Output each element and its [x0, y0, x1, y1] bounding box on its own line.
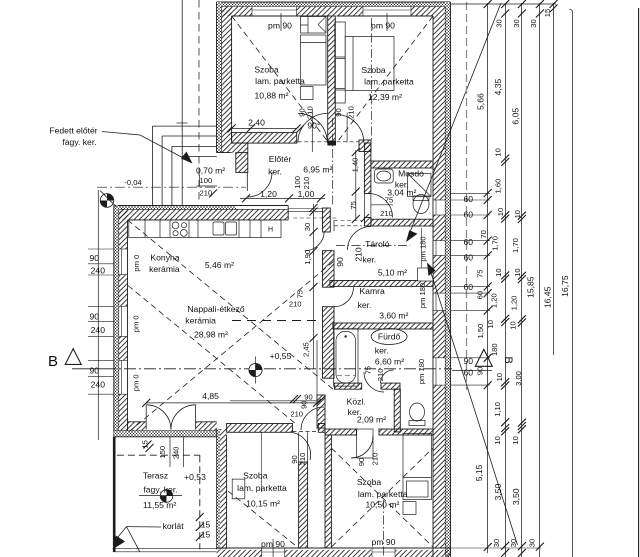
- wall: Kozl / WC divider: [394, 389, 400, 432]
- svg-text:1,20: 1,20: [509, 296, 518, 311]
- svg-text:1,90: 1,90: [303, 250, 312, 265]
- svg-text:30: 30: [512, 19, 521, 27]
- svg-text:210: 210: [298, 453, 307, 466]
- svg-text:3,50: 3,50: [493, 484, 503, 501]
- roof overhang dashed over terrace: [117, 455, 200, 549]
- svg-text:12,39 m²: 12,39 m²: [368, 92, 402, 102]
- svg-text:pm 180: pm 180: [419, 236, 428, 261]
- Furdo bathtub: [334, 329, 358, 386]
- svg-text:70: 70: [479, 230, 488, 238]
- svg-text:pm 180: pm 180: [418, 283, 427, 308]
- door arc: bedroom2 door: [336, 113, 364, 143]
- porch steps nested corners: [153, 126, 217, 205]
- svg-text:10: 10: [494, 268, 503, 276]
- wall: pier between opening and central wall: [323, 208, 331, 232]
- leader: long leader B to Kamra corner: [427, 263, 518, 546]
- svg-text:60: 60: [463, 253, 473, 263]
- svg-text:lam. parketta: lam. parketta: [255, 76, 305, 86]
- svg-text:10: 10: [513, 210, 522, 218]
- svg-text:ker.: ker.: [358, 300, 372, 310]
- svg-text:Nappali-étkező: Nappali-étkező: [187, 304, 245, 314]
- wall: south wall of Nappali at terrace: [114, 422, 217, 437]
- svg-text:6,95 m²: 6,95 m²: [303, 165, 332, 175]
- svg-text:210: 210: [302, 177, 311, 190]
- room diagonal: bedroom1 dashed: [232, 16, 329, 143]
- svg-text:1,10: 1,10: [493, 402, 502, 417]
- svg-text:240: 240: [91, 380, 106, 390]
- svg-text:pm 0: pm 0: [131, 315, 140, 332]
- svg-text:90: 90: [89, 253, 99, 263]
- leader: Fedett eloter arrow: [102, 132, 193, 164]
- svg-text:pm 180: pm 180: [417, 359, 426, 384]
- dimension line: right chain line L5: [539, 3, 541, 557]
- door arc: terrace double door: [146, 405, 195, 430]
- wall pocket at Kamra NE corner: [418, 268, 433, 281]
- dimension line: right chain line L3: [505, 3, 507, 557]
- wall: bedroom3 / bedroom4 divider: [299, 432, 308, 548]
- ticks: L3 chain: [501, 155, 509, 557]
- svg-text:10: 10: [513, 268, 522, 276]
- svg-text:60: 60: [463, 282, 473, 292]
- svg-text:30: 30: [527, 539, 536, 547]
- wire: roof line solid vertical x182: [181, 0, 183, 206]
- bedroom1 bed: [301, 35, 327, 85]
- window: top wall bedroom1 window pm90: [252, 7, 297, 17]
- wall: Tarolo / Kamra divider: [330, 281, 433, 287]
- svg-text:30: 30: [529, 19, 538, 27]
- wire: top connector of right chains: [451, 3, 557, 5]
- svg-text:pm 0: pm 0: [132, 255, 141, 272]
- svg-text:1,70: 1,70: [511, 238, 520, 253]
- wire: opening Eloter-Nappali head lines: [288, 209, 338, 219]
- door arc: Kamra door: [334, 287, 354, 307]
- wall: bedroom4 west wall: [325, 435, 331, 548]
- window: left wall window3: [119, 360, 128, 394]
- svg-text:Szoba: Szoba: [357, 477, 382, 487]
- svg-text:B: B: [502, 357, 514, 364]
- survey marker in Nappali: [249, 357, 262, 384]
- wall: central wall between bedrooms: [327, 16, 336, 146]
- door arc: WC door: [381, 370, 394, 383]
- svg-text:6,05: 6,05: [511, 108, 521, 125]
- svg-text:1,60: 1,60: [494, 179, 503, 194]
- svg-text:H: H: [268, 227, 273, 234]
- svg-text:15: 15: [141, 440, 150, 448]
- window: left wall window2: [119, 306, 128, 336]
- wall: left exterior wall (west): [114, 206, 128, 437]
- svg-text:60: 60: [463, 210, 473, 220]
- window: right wall Furdo window: [433, 358, 445, 385]
- svg-text:10: 10: [509, 321, 518, 329]
- svg-text:10: 10: [495, 373, 504, 381]
- wire: passage dashes kitchen-Tarolo: [334, 221, 362, 226]
- svg-text:210: 210: [353, 247, 363, 262]
- svg-text:90: 90: [300, 400, 309, 408]
- svg-text:30: 30: [495, 19, 504, 27]
- dimension line: terrace 15/15 right chain: [196, 513, 204, 541]
- svg-text:B: B: [48, 353, 58, 370]
- svg-text:90: 90: [89, 311, 99, 321]
- svg-text:kerámia: kerámia: [185, 316, 216, 326]
- leader: long leader A to Tarolo: [406, 3, 501, 242]
- axis dash-dot: bedroom4 window axis: [383, 500, 385, 557]
- svg-text:30: 30: [492, 539, 501, 547]
- wall: Mosdo west wall: [364, 143, 371, 226]
- kitchen counter: [129, 220, 281, 238]
- svg-text:10,50 m²: 10,50 m²: [365, 500, 399, 510]
- svg-text:150: 150: [158, 446, 167, 459]
- kitchen sink: [213, 222, 237, 235]
- svg-text:75: 75: [385, 196, 393, 205]
- survey marker in Terasz: [160, 490, 173, 503]
- door arc: Tarolo door: [305, 231, 324, 250]
- svg-text:10: 10: [494, 148, 503, 156]
- wall: Kamra / Furdo divider: [333, 323, 433, 329]
- svg-text:90°: 90°: [307, 120, 320, 130]
- svg-text:0,70 m²: 0,70 m²: [196, 165, 225, 175]
- svg-text:75: 75: [475, 269, 484, 277]
- axis dash-dot: bedroom3 window axis: [272, 539, 274, 557]
- kitchen stove circles: [172, 222, 187, 236]
- wall: right exterior wall: [433, 2, 451, 557]
- svg-text:100: 100: [200, 176, 213, 185]
- svg-text:pm 0: pm 0: [131, 374, 140, 391]
- svg-text:Kamra: Kamra: [359, 286, 385, 296]
- wall: central wall lower (Nappali/Tarolo-Kamra-Furdo): [323, 220, 335, 378]
- door arc: Kozl door from Nappali: [301, 407, 324, 430]
- svg-text:210: 210: [380, 209, 393, 218]
- Mosdo shower: [408, 174, 432, 197]
- svg-text:Konyha: Konyha: [150, 253, 179, 263]
- svg-text:pm 90: pm 90: [268, 20, 292, 30]
- svg-text:ker.: ker.: [362, 254, 376, 264]
- WC room toilet: [409, 403, 425, 426]
- wall: terrace / bedroom3 west wall: [217, 429, 227, 549]
- svg-text:15: 15: [201, 520, 211, 530]
- svg-text:lam. parketta: lam. parketta: [364, 77, 414, 87]
- svg-text:6,60 m²: 6,60 m²: [375, 356, 404, 366]
- section line B-B dash-dot: [72, 369, 492, 371]
- wire: terrace bottom edge: [113, 548, 217, 552]
- svg-text:pm 90: pm 90: [261, 539, 285, 549]
- svg-text:Fürdő: Fürdő: [378, 332, 401, 342]
- wall: kitchen north wall / porch wall: [114, 206, 288, 220]
- bedroom4 bed: [403, 434, 432, 515]
- window: right wall Kamra window: [433, 293, 445, 311]
- dimension line: 1,20 / 1,00 eloter: [240, 194, 325, 202]
- wire: kozl stub extension: [316, 340, 318, 395]
- svg-text:16,45: 16,45: [542, 286, 552, 308]
- dimension line: right chain line L6: [553, 3, 555, 355]
- window: bottom wall bedroom3 window: [262, 548, 285, 557]
- wall: Kozl west stub: [317, 395, 325, 428]
- ticks: L2 chain: [484, 189, 492, 551]
- svg-text:-0,04: -0,04: [124, 178, 141, 187]
- room diagonal: bedroom2 dashed: [337, 16, 434, 143]
- wall: terrace west railing edge: [113, 437, 116, 552]
- svg-text:210: 210: [290, 409, 303, 418]
- window: right wall Mosdo window: [433, 200, 445, 215]
- svg-text:60: 60: [463, 368, 473, 378]
- svg-text:75: 75: [364, 366, 373, 374]
- svg-text:16,75: 16,75: [560, 275, 570, 297]
- svg-text:75: 75: [349, 201, 358, 209]
- door arc: bedroom3 door: [262, 433, 311, 493]
- wire: roof overhang dashed vertical x199: [198, 0, 200, 204]
- room diagonal: nappali main dashed: [128, 220, 335, 390]
- svg-text:5,10 m²: 5,10 m²: [378, 267, 407, 277]
- svg-text:5,66: 5,66: [475, 93, 485, 110]
- wall: bottom exterior wall: [217, 548, 451, 557]
- dimension line: right chain line L7: [570, 9, 573, 557]
- svg-text:100: 100: [293, 176, 302, 189]
- wall: entry door side pier: [236, 153, 248, 173]
- svg-text:10: 10: [486, 320, 495, 328]
- svg-text:210: 210: [306, 106, 315, 119]
- svg-text:60: 60: [463, 237, 473, 247]
- svg-text:180: 180: [490, 343, 499, 356]
- svg-text:fagy. ker.: fagy. ker.: [62, 137, 96, 147]
- svg-text:+0,55: +0,55: [270, 351, 292, 361]
- svg-text:+0,53: +0,53: [184, 472, 206, 482]
- section marker B right triangle: [475, 349, 492, 366]
- wire: porch door axis dash-dot: [97, 186, 246, 188]
- svg-text:210: 210: [376, 369, 385, 382]
- svg-text:ker.: ker.: [268, 167, 282, 177]
- svg-text:3,50: 3,50: [511, 488, 521, 505]
- svg-text:90: 90: [463, 356, 473, 366]
- svg-text:15: 15: [201, 530, 211, 540]
- svg-text:10: 10: [496, 208, 505, 216]
- ticks: top of right chains: [484, 0, 558, 18]
- extension lines: right wall window edges: [451, 193, 491, 385]
- svg-text:90: 90: [334, 108, 343, 116]
- svg-text:1,40: 1,40: [351, 158, 360, 173]
- svg-text:30: 30: [509, 539, 518, 547]
- svg-text:90: 90: [304, 393, 312, 402]
- svg-text:15,85: 15,85: [526, 276, 536, 298]
- svg-text:3,00: 3,00: [514, 371, 523, 386]
- door arc: front entry door: [247, 172, 272, 197]
- section marker B left triangle: [65, 349, 81, 365]
- bedroom2 bed: [345, 36, 394, 90]
- bedroom1 wardrobe: [301, 17, 327, 34]
- svg-text:11,55 m²: 11,55 m²: [143, 500, 176, 510]
- wire: Tarolo axis dash-dot: [336, 245, 410, 247]
- svg-text:15: 15: [543, 9, 552, 17]
- svg-text:240: 240: [91, 266, 106, 276]
- dimension line: 4,85 nappali: [142, 399, 321, 407]
- wire: bedroom2 door head dashed line: [298, 141, 327, 143]
- svg-text:4,85: 4,85: [202, 391, 219, 401]
- label: Furdo with ellipse: [371, 329, 407, 345]
- dimension line: eloter east chain 1,40 / 75: [352, 148, 360, 223]
- svg-text:1,70: 1,70: [491, 236, 500, 251]
- bedroom2 nightstand column: [335, 22, 345, 103]
- svg-text:60: 60: [463, 194, 473, 204]
- svg-text:Közl.: Közl.: [347, 396, 366, 406]
- border line right edge: [638, 8, 640, 557]
- wall: bedroom2 south pier: [359, 140, 371, 152]
- dimension line: right gray dashed overhang line: [466, 2, 468, 390]
- wall: north walls of bedroom3 / Kozl south: [227, 424, 433, 436]
- svg-text:240: 240: [91, 325, 106, 335]
- svg-text:Előtér: Előtér: [269, 154, 292, 164]
- wire: pm180 dim line tarolo: [421, 228, 423, 268]
- door arc: bedroom4 door: [351, 429, 373, 458]
- wall: Mosdo / Tarolo divider: [371, 219, 433, 226]
- svg-text:210: 210: [347, 106, 356, 119]
- svg-text:60: 60: [475, 291, 484, 299]
- svg-text:pm 90: pm 90: [372, 537, 396, 547]
- wall: bedroom1 south wall: [232, 133, 297, 144]
- room diagonal: bedroom4 rising dashed: [331, 448, 433, 547]
- svg-text:3,60 m²: 3,60 m²: [379, 311, 408, 321]
- svg-text:28,98 m²: 28,98 m²: [194, 329, 228, 339]
- wall: piece right of Furdo door: [381, 383, 400, 389]
- svg-text:4,35: 4,35: [493, 79, 503, 96]
- svg-text:fagy. ker.: fagy. ker.: [143, 485, 177, 495]
- svg-text:lam. parketta: lam. parketta: [358, 489, 408, 499]
- room diagonal: bedroom3 dashed: [228, 491, 299, 548]
- svg-text:30: 30: [303, 223, 312, 231]
- svg-text:korlát: korlát: [163, 521, 185, 531]
- svg-text:240: 240: [172, 446, 181, 459]
- svg-text:10: 10: [511, 436, 520, 444]
- svg-text:10: 10: [493, 436, 502, 444]
- svg-text:pm 90: pm 90: [371, 20, 395, 30]
- extension lines: left wall windows: [88, 249, 114, 394]
- dimension line: porch 100/210 divider: [197, 175, 218, 198]
- svg-text:Terasz: Terasz: [143, 471, 168, 481]
- svg-text:1,50: 1,50: [476, 324, 485, 339]
- wall: bedroom2 / Mosdo divider: [371, 161, 433, 168]
- svg-text:Szoba: Szoba: [254, 64, 279, 74]
- room diagonal: nappali rising dashed: [129, 261, 334, 432]
- door arc: Furdo door: [364, 372, 384, 392]
- bedroom3 wardrobe: [232, 479, 245, 499]
- svg-text:Mosdó: Mosdó: [398, 168, 424, 178]
- svg-text:5,15: 5,15: [474, 464, 484, 481]
- window: top wall bedroom2 window pm90: [363, 7, 411, 17]
- svg-text:10,15 m²: 10,15 m²: [246, 499, 280, 509]
- svg-text:210: 210: [289, 300, 302, 309]
- dimension line: right chain line L4: [521, 3, 523, 557]
- axis dash-dot: bedroom2 window axis: [371, 18, 373, 141]
- dimension line: right chain line L2: [487, 3, 489, 553]
- wall: top exterior wall of bedrooms: [217, 2, 451, 16]
- axis dash-dot: eloter wall axis: [332, 118, 334, 205]
- leader: korlat arrow: [113, 527, 162, 552]
- svg-text:90: 90: [357, 458, 366, 466]
- wire: bottom connector of right chains: [451, 547, 542, 549]
- ticks: L4 chain: [518, 212, 526, 557]
- svg-text:90: 90: [335, 257, 345, 267]
- window: left wall window1: [119, 249, 128, 275]
- Mosdo washbasin: [375, 169, 394, 183]
- wall: Furdo / Kozl divider: [334, 383, 361, 389]
- window: bottom wall bedroom4 window: [372, 548, 395, 557]
- wire: 90 dim line kozl: [230, 400, 317, 402]
- bedroom1 nightstand: [301, 87, 314, 100]
- svg-text:1,20: 1,20: [489, 293, 498, 308]
- svg-text:5,46 m²: 5,46 m²: [205, 260, 234, 270]
- dimension line: central chain at eloter pier: [310, 204, 318, 369]
- wall: entry jog wall piece: [217, 143, 248, 153]
- svg-text:90: 90: [89, 365, 99, 375]
- svg-text:210: 210: [371, 453, 380, 466]
- dimension line: left vertical chain: [97, 190, 99, 440]
- door arc: Mosdo door: [369, 194, 394, 218]
- dimension line: terrace door 150/240 verticals: [144, 437, 184, 467]
- svg-text:210: 210: [200, 188, 213, 197]
- svg-text:75: 75: [295, 290, 304, 298]
- survey marker at NW corner: [100, 191, 116, 208]
- svg-text:1,00: 1,00: [298, 189, 315, 199]
- svg-text:Fedett előtér: Fedett előtér: [49, 126, 97, 136]
- svg-text:90: 90: [476, 367, 485, 375]
- svg-text:kerámia: kerámia: [149, 264, 180, 274]
- svg-text:2,09 m²: 2,09 m²: [357, 414, 386, 424]
- wall: left exterior wall of bedroom1: [217, 2, 232, 153]
- door arc: bedroom1 door crossed swings: [298, 109, 327, 152]
- svg-text:1,20: 1,20: [260, 189, 277, 199]
- door arc: Mosdo-Tarolo divider door: [348, 227, 372, 251]
- svg-text:2,45: 2,45: [301, 342, 310, 357]
- room diagonal: nappali second dashed: [128, 286, 296, 425]
- room diagonal: bedroom4 falling dashed: [331, 448, 433, 547]
- wire: tick on roof line: [177, 122, 188, 124]
- svg-text:2,40: 2,40: [248, 117, 265, 127]
- Mosdo WC: [413, 195, 429, 214]
- svg-text:Szoba: Szoba: [243, 471, 268, 481]
- svg-text:Tároló: Tároló: [365, 239, 390, 249]
- window: right wall Tarolo window: [433, 241, 445, 256]
- dimension line: 2,40 bedroom1: [228, 124, 301, 132]
- svg-text:ker.: ker.: [375, 345, 389, 355]
- svg-text:Szoba: Szoba: [361, 65, 386, 75]
- svg-text:10,88 m²: 10,88 m²: [255, 90, 289, 100]
- ticks: L5 chain: [536, 543, 544, 551]
- ticks: misc near doors: [247, 124, 369, 404]
- svg-text:lam. parketta: lam. parketta: [237, 483, 287, 493]
